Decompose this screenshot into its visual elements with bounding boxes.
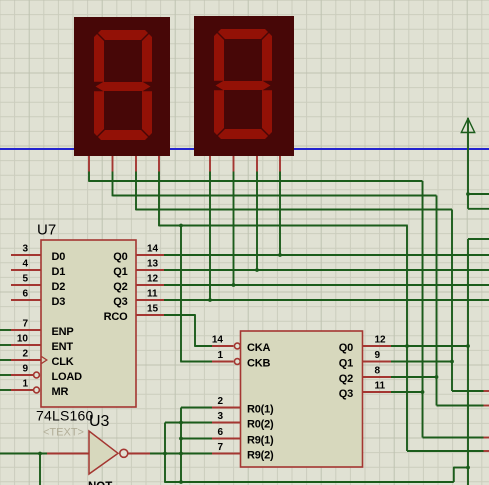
wire U7 Q1 row to right edge	[164, 269, 489, 271]
blue net line	[0, 148, 489, 150]
svg-text:8: 8	[375, 366, 381, 377]
svg-text:NOT: NOT	[88, 481, 112, 485]
wire vertical A x165 (R0(2) to rail)	[164, 423, 166, 483]
svg-text:14: 14	[212, 335, 224, 346]
svg-text:LOAD: LOAD	[52, 371, 83, 383]
svg-text:2: 2	[22, 349, 28, 360]
counter 7490 body	[241, 331, 363, 467]
wire U7 CLK from left edge	[0, 359, 12, 361]
counter U7 74LS160 body	[41, 240, 136, 407]
svg-text:RCO: RCO	[104, 311, 128, 323]
pin stub NOT input	[47, 453, 89, 455]
junction Q0 row / x467 vertical	[466, 344, 470, 348]
junction B / ground rail	[179, 480, 183, 484]
power rail vertical from arrow	[467, 118, 469, 209]
svg-text:7: 7	[217, 442, 223, 453]
U7 clock chevron	[42, 357, 47, 364]
wire NOT output to R9(2)	[150, 453, 212, 455]
wire display1 pinA vertical	[88, 172, 90, 182]
pin stubs U7 right Q0-Q3 RCO	[136, 254, 164, 256]
wire 7490 Q3 row	[391, 391, 423, 393]
wire display2 pinC vertical to Q1 row	[256, 172, 258, 271]
wire U7 ENT from left edge	[0, 344, 12, 346]
svg-text:Q2: Q2	[339, 373, 353, 385]
junction display2 pinB / Q2	[232, 283, 236, 287]
wire U7 MR from left edge	[0, 389, 12, 391]
svg-text:CKB: CKB	[247, 358, 270, 370]
svg-text:12: 12	[375, 335, 387, 346]
wire U7 LOAD from left edge	[0, 374, 12, 376]
svg-text:D0: D0	[52, 251, 66, 263]
wire exit row y437	[423, 437, 484, 439]
svg-text:13: 13	[147, 259, 159, 270]
pin stubs display1	[88, 156, 90, 172]
pin stubs display2	[209, 156, 211, 172]
svg-text:6: 6	[22, 289, 28, 300]
junction x422 / 7490 Q3 row	[421, 390, 425, 394]
svg-text:R9(2): R9(2)	[247, 450, 274, 462]
svg-text:CKA: CKA	[247, 342, 270, 354]
wire R0(1) row	[181, 407, 212, 409]
wire vertical x452 (rowC down to y391)	[451, 210, 453, 392]
svg-text:CLK: CLK	[52, 356, 74, 368]
wire exit row y405	[437, 405, 484, 407]
pin stub tips right edge	[484, 390, 489, 392]
junction display2 pinC / Q1	[255, 268, 259, 272]
junction step / bottom exit	[466, 466, 470, 470]
svg-text:U3: U3	[89, 413, 110, 430]
wire row D (display1 pinD to x407)	[159, 225, 408, 227]
wire row B (display1 pinB to x436)	[113, 195, 437, 197]
pin stubs U7 left D0-D3	[11, 254, 41, 256]
wire R0(2) row	[165, 422, 212, 424]
pin stubs 7490 R pins	[212, 407, 241, 409]
wire NOT input from left edge	[0, 453, 47, 455]
svg-text:3: 3	[22, 244, 28, 255]
svg-text:12: 12	[147, 274, 159, 285]
svg-text:Q3: Q3	[339, 388, 353, 400]
wire vertical x436 (rowB down to y405)	[436, 196, 438, 406]
junction B / NOT row	[179, 452, 183, 456]
wire bottom exit x40	[39, 454, 41, 485]
wire right edge entry y239	[468, 238, 489, 240]
junction B / R9(1) row	[179, 437, 183, 441]
wire 7490 Q2 row	[391, 376, 437, 378]
wire display1 pinB vertical	[112, 172, 114, 197]
svg-text:Q0: Q0	[113, 251, 127, 263]
wire row C (display1 pinC to x452)	[136, 209, 452, 211]
ground rail bottom	[164, 481, 454, 483]
wire CKB horizontal	[180, 361, 212, 363]
junction display2 pinD / Q0	[278, 253, 282, 257]
svg-text:14: 14	[147, 244, 159, 255]
wire U7 Q2 row to right edge	[164, 284, 489, 286]
wire RCO horizontal	[164, 314, 195, 316]
wire RCO to CKA	[194, 345, 212, 347]
svg-text:D3: D3	[52, 296, 66, 308]
pin stub 7490 CKB with bubble	[212, 361, 234, 363]
wire step vertical x453	[453, 467, 455, 482]
svg-text:5: 5	[22, 274, 28, 285]
svg-text:9: 9	[22, 364, 28, 375]
svg-text:Q3: Q3	[113, 296, 127, 308]
svg-text:3: 3	[217, 411, 223, 422]
inverter U3 output bubble	[120, 449, 128, 457]
wire exit row y451	[407, 450, 484, 452]
wire 7490 Q0 row	[391, 345, 468, 347]
wire vertical x407 (rowD down to y451)	[406, 226, 408, 452]
svg-text:9: 9	[375, 350, 381, 361]
pin stubs U7 left ENP ENT CLK	[11, 329, 41, 331]
svg-text:6: 6	[217, 427, 223, 438]
svg-text:1: 1	[22, 379, 28, 390]
power rail branch to right edge y194	[468, 193, 489, 195]
wire vertical x467 down	[467, 239, 469, 468]
svg-text:<TEXT>: <TEXT>	[43, 427, 84, 439]
7-segment display DS2 body	[194, 16, 294, 156]
pin stub U7 MR with bubble	[11, 389, 34, 391]
display DS2 middle segment notches	[214, 81, 224, 86]
svg-text:7: 7	[22, 319, 28, 330]
svg-text:Q1: Q1	[339, 358, 353, 370]
junction A / NOT row	[163, 452, 167, 456]
power rail exit y208	[468, 208, 489, 210]
wire 7490 Q1 row	[391, 361, 452, 363]
wire display1 pinC vertical	[135, 172, 137, 211]
display DS1 middle segment notches	[94, 82, 104, 87]
wire U7 Q0 row to right edge	[164, 254, 489, 256]
wire vertical x422 (rowA down to y437)	[422, 181, 424, 438]
svg-text:11: 11	[147, 289, 158, 300]
wire display2 pinA vertical to Q3 row	[209, 172, 211, 301]
power arrow symbol	[461, 119, 474, 133]
pin stubs 7490 Q pins right	[363, 345, 392, 347]
wire RCO vertical down	[194, 314, 196, 346]
svg-text:R9(1): R9(1)	[247, 435, 274, 447]
wire display2 pinB vertical to Q2 row	[233, 172, 235, 286]
svg-text:D2: D2	[52, 281, 66, 293]
svg-text:U7: U7	[37, 222, 56, 239]
junction x452 / 7490 Q1 row	[450, 360, 454, 364]
wire U7 Q3 row to right edge	[164, 299, 489, 301]
svg-text:11: 11	[375, 381, 386, 392]
wire step horizontal y467	[454, 467, 468, 469]
svg-text:R0(1): R0(1)	[247, 404, 274, 416]
wire R9(1) row	[181, 438, 212, 440]
wire vertical B x181 (R0(1) to rail)	[180, 408, 182, 483]
junction NOT input / bottom exit	[38, 452, 42, 456]
wire CKB vertical	[180, 226, 182, 362]
svg-text:ENP: ENP	[52, 326, 74, 338]
display DS1 corner separators	[97, 33, 105, 41]
wire row A (display1 pinA to x422)	[89, 180, 423, 182]
wire display1 pinD vertical	[158, 172, 160, 227]
pin stub 7490 CKA with bubble	[212, 345, 234, 347]
wire bottom exit x467	[467, 468, 469, 485]
svg-text:Q0: Q0	[339, 342, 353, 354]
junction B / R0(2) row	[179, 421, 183, 425]
junction x407 / 7490 Q0 row	[405, 344, 409, 348]
inverter U3 NOT gate triangle	[89, 431, 118, 474]
pin stub NOT output	[128, 453, 150, 455]
wire U7 ENP from left edge	[0, 329, 12, 331]
svg-text:R0(2): R0(2)	[247, 419, 274, 431]
pin stub U7 LOAD with bubble	[11, 374, 34, 376]
svg-text:2: 2	[217, 396, 223, 407]
display DS2 digit 8 segments	[214, 29, 272, 139]
svg-text:4: 4	[22, 259, 28, 270]
junction power rail branch	[466, 192, 470, 196]
svg-text:15: 15	[147, 304, 159, 315]
display DS1 digit 8 segments	[94, 30, 152, 140]
junction row D / CKB branch	[179, 224, 183, 228]
wire display2 pinD vertical to Q0 row	[279, 172, 281, 256]
svg-text:74LS160: 74LS160	[36, 408, 93, 424]
svg-text:10: 10	[17, 334, 29, 345]
svg-text:D1: D1	[52, 266, 66, 278]
junction display2 pinA / Q3	[208, 298, 212, 302]
wire exit row y391	[452, 390, 484, 392]
svg-text:Q2: Q2	[113, 281, 127, 293]
junction x436 / 7490 Q2 row	[435, 375, 439, 379]
svg-text:ENT: ENT	[52, 341, 74, 353]
display DS2 corner separators	[217, 32, 225, 40]
svg-text:Q1: Q1	[113, 266, 127, 278]
7-segment display DS1 body	[74, 17, 170, 156]
svg-text:1: 1	[217, 350, 223, 361]
svg-text:MR: MR	[52, 386, 69, 398]
